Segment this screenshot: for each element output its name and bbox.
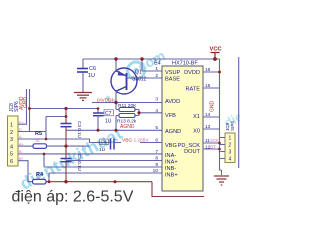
wire PD_SCK pin11 [203, 142, 220, 144]
connector JC8 [8, 116, 19, 166]
svg-text:DT: DT [210, 144, 216, 149]
svg-text:R5: R5 [35, 131, 42, 137]
svg-text:3: 3 [155, 97, 158, 103]
wire H3 branch [46, 116, 66, 118]
wire AVDD drop to JC8 pin1 [17, 89, 27, 124]
svg-text:SIP6: SIP6 [14, 101, 20, 112]
svg-text:3: 3 [229, 150, 232, 156]
wire AVDD rail [92, 102, 162, 104]
IC left pin numbers [153, 66, 159, 174]
connector JC9 designator [225, 121, 235, 131]
svg-text:INB-: INB- [165, 166, 176, 172]
svg-text:INB+: INB+ [165, 173, 178, 179]
svg-text:RATE: RATE [185, 87, 200, 93]
svg-text:2: 2 [10, 130, 13, 136]
IC right pin names [178, 70, 201, 155]
svg-text:E+: E+ [19, 121, 25, 125]
ground symbol below C6 [74, 93, 92, 101]
IC left pin names [165, 70, 181, 179]
svg-text:4: 4 [10, 144, 13, 150]
svg-text:10: 10 [153, 168, 159, 174]
svg-text:S9012: S9012 [132, 77, 147, 83]
svg-text:INA-: INA- [165, 153, 176, 159]
svg-text:INA+: INA+ [165, 160, 178, 166]
svg-text:VFB: VFB [165, 113, 176, 119]
wire JC8 pin6 down [18, 161, 33, 182]
IC right pin numbers [205, 67, 211, 151]
svg-text:1U: 1U [88, 73, 95, 79]
wire V46 [45, 117, 47, 140]
wire AGND rail pin5 [66, 129, 162, 131]
svg-text:SCK: SCK [210, 138, 219, 143]
wire DOUT pin12 [203, 148, 220, 150]
svg-text:VBG: VBG [165, 143, 177, 149]
svg-text:HX710-BF: HX710-BF [172, 61, 198, 67]
svg-text:2: 2 [229, 142, 232, 148]
wire VFB pin4 [139, 112, 162, 114]
svg-text:Q1: Q1 [135, 70, 142, 76]
svg-text:C5 0.1U: C5 0.1U [77, 154, 82, 171]
IC E4 HX710-BF [154, 61, 203, 192]
wire VSUP pin1 [142, 59, 162, 71]
svg-text:4: 4 [229, 157, 232, 163]
watermark row A dientukithuat [17, 124, 126, 194]
JC8 pin net labels pink [19, 121, 25, 161]
watermark row C right edge [221, 105, 252, 131]
wire R divider verticals [116, 103, 139, 131]
svg-text:E4: E4 [154, 61, 161, 67]
svg-text:3: 3 [10, 137, 13, 143]
svg-text:X1: X1 [193, 114, 200, 120]
svg-text:VSUP: VSUP [165, 70, 181, 76]
svg-text:AVDD: AVDD [165, 99, 180, 105]
svg-text:5: 5 [10, 152, 13, 158]
wire JC8 pin4 to R5 [18, 145, 33, 147]
svg-text:5: 5 [155, 125, 158, 131]
svg-text:1U: 1U [99, 147, 106, 153]
svg-text:1: 1 [229, 135, 232, 141]
connector JC8 designator [9, 101, 20, 112]
svg-text:1: 1 [155, 66, 158, 72]
wire INA+ row [66, 160, 162, 162]
wire top VSUP rail [83, 58, 220, 60]
resistor R11 [116, 103, 139, 112]
svg-text:AGND: AGND [165, 129, 181, 135]
resistor R13 [116, 114, 139, 125]
wire Q1 emitter to rail [115, 59, 117, 71]
wire X0 pin13 [203, 128, 220, 130]
VCC power symbol [210, 47, 223, 60]
svg-text:2: 2 [155, 73, 158, 79]
svg-text:(AVDD): (AVDD) [97, 98, 114, 104]
svg-text:X0: X0 [193, 129, 200, 135]
capacitor C7 [93, 109, 114, 131]
svg-text:AGND: AGND [120, 124, 135, 130]
resistor R4 [33, 172, 153, 184]
wire X1 pin14 [203, 116, 220, 118]
capacitor C3 vertical [61, 109, 83, 147]
svg-text:C6: C6 [89, 66, 96, 72]
capacitor C5 vertical [61, 146, 83, 182]
svg-text:C8: C8 [101, 140, 107, 146]
svg-text:SIP4: SIP4 [230, 121, 235, 131]
svg-text:6: 6 [10, 159, 13, 165]
wire INB+ row [49, 173, 162, 182]
wire right GND rail [220, 59, 222, 175]
svg-text:7: 7 [155, 149, 158, 155]
svg-text:VCC: VCC [210, 47, 223, 53]
wire JC8 pin5 to INA- [18, 153, 162, 155]
svg-text:C7: C7 [105, 111, 112, 117]
capacitor C6 [77, 59, 96, 92]
wire INB- row [44, 154, 162, 167]
wire bottom rail step [152, 182, 204, 197]
transistor Q1 labels [132, 70, 147, 83]
wire DVDD pin16 [203, 71, 220, 73]
svg-text:BASE: BASE [165, 77, 180, 83]
svg-text:4: 4 [155, 108, 158, 114]
wire GND drop to JC8 pin2 [17, 89, 46, 132]
svg-text:GND: GND [23, 97, 29, 109]
resistor R5 [33, 131, 90, 148]
wire BASE pin2 [127, 77, 163, 79]
svg-text:DOUT: DOUT [184, 149, 200, 155]
svg-text:điện áp: 2.6-5.5V: điện áp: 2.6-5.5V [12, 189, 134, 206]
transistor Q1 [111, 68, 137, 94]
wire Q1 collector to AVDD rail [115, 91, 117, 102]
svg-text:DVDD: DVDD [184, 70, 200, 76]
svg-text:9: 9 [155, 162, 158, 168]
wire GND branch [30, 108, 99, 110]
svg-text:GND: GND [210, 101, 216, 113]
svg-text:8: 8 [155, 156, 158, 162]
svg-text:1: 1 [10, 123, 13, 129]
wire VBG pin6 [140, 142, 162, 144]
wire JC9 pin stubs [220, 138, 226, 159]
svg-text:C3 0.1U: C3 0.1U [77, 121, 82, 138]
svg-text:6: 6 [155, 138, 158, 144]
wire RATE pin15 [203, 87, 220, 89]
wire right edge segment [238, 57, 240, 168]
ground symbol right [214, 176, 229, 185]
svg-text:1U: 1U [105, 119, 112, 125]
wire JC8 pin3 to C8 [18, 139, 110, 143]
connector JC9 [225, 133, 235, 163]
svg-text:1K: 1K [35, 139, 40, 143]
capacitor C8 [99, 139, 121, 154]
watermark row B with logo circle [103, 47, 167, 107]
